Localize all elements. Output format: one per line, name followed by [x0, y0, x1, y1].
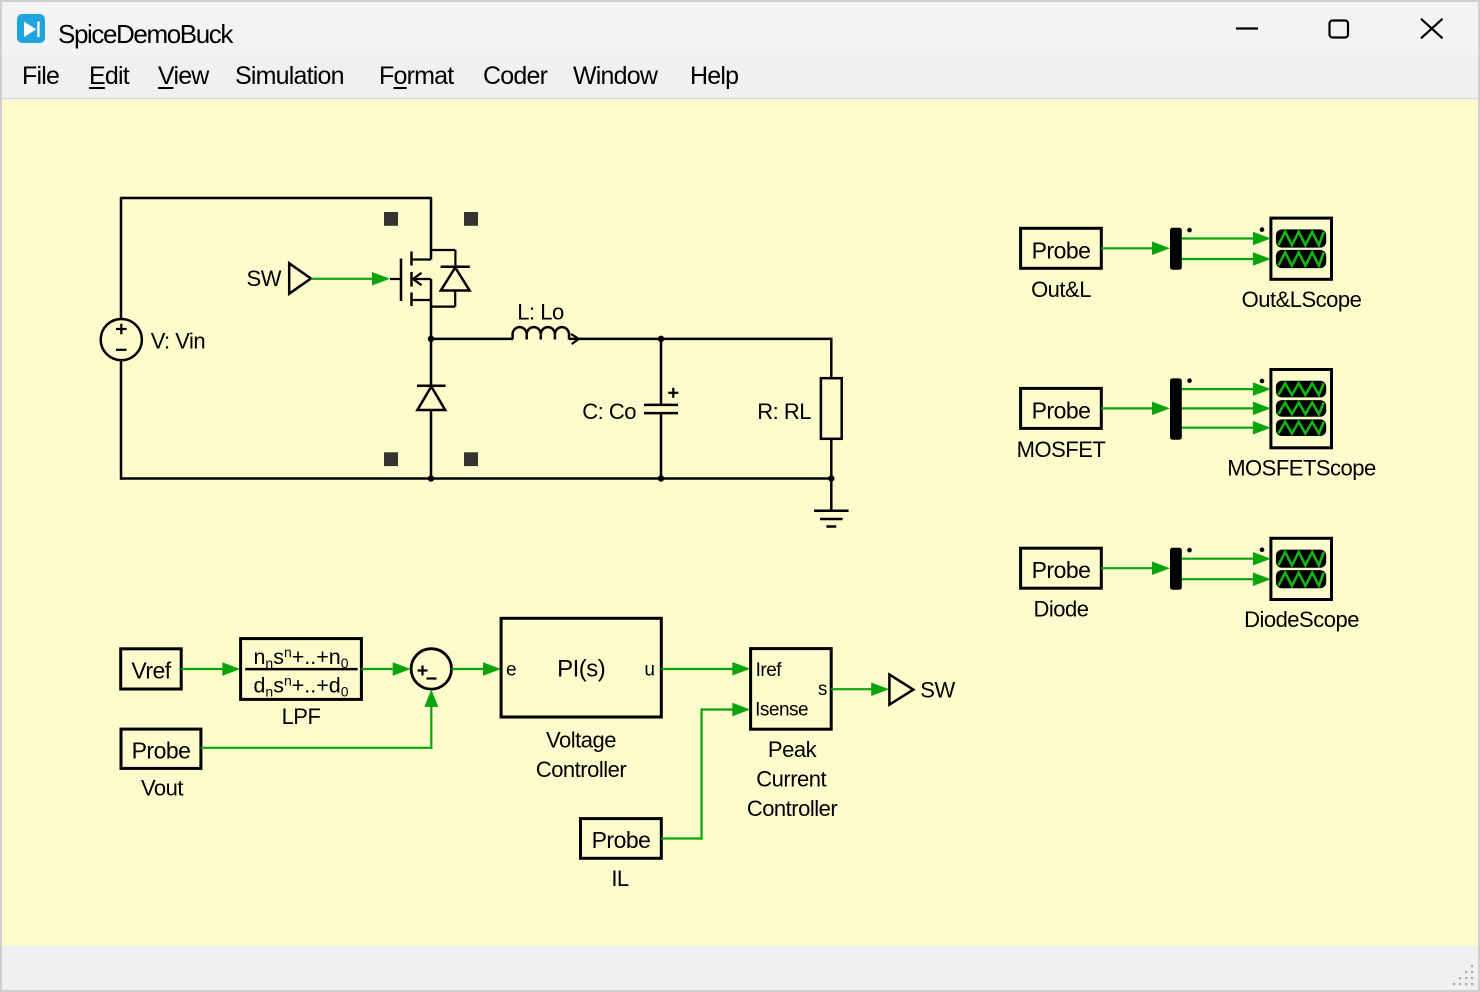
svg-text:Controller: Controller [747, 796, 838, 821]
svg-text:Diode: Diode [1034, 597, 1089, 622]
svg-text:L: Lo: L: Lo [517, 299, 564, 324]
svg-text:Vref: Vref [131, 658, 171, 684]
svg-text:SW: SW [247, 266, 282, 291]
svg-text:LPF: LPF [282, 704, 321, 729]
svg-text:Vout: Vout [141, 776, 183, 801]
svg-text:Peak: Peak [768, 737, 818, 762]
svg-text:Iref: Iref [756, 660, 783, 681]
svg-text:e: e [506, 660, 516, 681]
svg-text:Probe: Probe [1032, 237, 1091, 263]
svg-text:PI(s): PI(s) [557, 656, 605, 683]
svg-text:IL: IL [611, 866, 629, 891]
svg-text:Controller: Controller [536, 757, 627, 782]
svg-text:Probe: Probe [132, 737, 191, 763]
svg-text:Probe: Probe [592, 827, 651, 853]
svg-text:Probe: Probe [1032, 397, 1091, 423]
svg-text:s: s [818, 679, 827, 700]
svg-text:Voltage: Voltage [546, 727, 616, 752]
svg-text:R: RL: R: RL [757, 399, 811, 424]
svg-text:Isense: Isense [755, 700, 808, 721]
svg-text:C: Co: C: Co [582, 399, 636, 424]
svg-text:MOSFET: MOSFET [1017, 437, 1106, 462]
svg-text:Probe: Probe [1032, 557, 1091, 583]
svg-text:SW: SW [920, 677, 955, 702]
svg-text:V: Vin: V: Vin [151, 328, 205, 353]
svg-text:DiodeScope: DiodeScope [1244, 607, 1359, 632]
svg-text:Out&LScope: Out&LScope [1242, 287, 1362, 312]
svg-text:MOSFETScope: MOSFETScope [1227, 455, 1376, 480]
svg-text:Out&L: Out&L [1031, 277, 1091, 302]
svg-text:Current: Current [756, 767, 826, 792]
svg-text:u: u [644, 660, 654, 681]
